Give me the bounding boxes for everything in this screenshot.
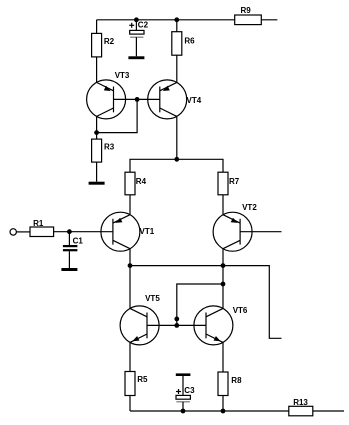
wire VT1 collector column [129, 249, 131, 309]
capacitor C3 [176, 376, 195, 411]
svg-text:R9: R9 [241, 6, 252, 15]
svg-text:R6: R6 [184, 36, 195, 45]
wire R6 to VT4 [176, 55, 178, 82]
node C3 bottom junction [181, 409, 186, 414]
wire top rail [97, 19, 235, 21]
svg-text:VT1: VT1 [140, 227, 155, 236]
wire R13 right [313, 410, 344, 412]
node VT2 rail B junction [221, 263, 226, 268]
resistor R7 [218, 172, 240, 195]
wire VT3 collector to R3 [96, 116, 98, 139]
resistor R2 [92, 33, 115, 57]
svg-text:C1: C1 [73, 236, 84, 245]
svg-text:R7: R7 [229, 177, 240, 186]
wire R6 top lead [176, 20, 178, 32]
capacitor C2 [129, 20, 148, 57]
wire VT2 collector column [222, 249, 224, 309]
resistor R13 [289, 398, 313, 416]
wire R1 to VT1 base [54, 231, 113, 233]
transistor VT4 [148, 80, 202, 119]
resistor R4 [125, 172, 147, 195]
wire R2 to VT3 [96, 57, 98, 83]
transistor VT6 [194, 306, 248, 345]
resistor R9 [235, 6, 262, 25]
svg-text:C3: C3 [184, 386, 195, 395]
node C1 tap [67, 229, 72, 234]
node base wire junction [174, 323, 179, 328]
wire VT5 emitter to R5 [129, 342, 131, 371]
svg-text:R4: R4 [136, 177, 147, 186]
svg-text:R1: R1 [33, 219, 44, 228]
resistor R8 [218, 372, 242, 396]
wire rail B [130, 266, 282, 339]
svg-text:C2: C2 [138, 20, 149, 29]
node bias tap [221, 282, 226, 287]
wire R5 to bottom rail [129, 396, 131, 412]
node rail A junction [174, 157, 179, 162]
wire input to R1 [16, 231, 30, 233]
node VT3 collector junction [94, 130, 99, 135]
wire R9 right [261, 19, 277, 21]
node R6 top junction [174, 17, 179, 22]
svg-text:VT3: VT3 [115, 71, 130, 80]
svg-text:VT2: VT2 [242, 203, 257, 212]
node R8 bottom junction [221, 409, 226, 414]
transistor VT5 [120, 294, 160, 345]
node base junction [135, 97, 140, 102]
wire R8 to bottom rail [222, 396, 224, 412]
node VT1 rail B junction [128, 263, 133, 268]
resistor R5 [125, 372, 148, 396]
svg-text:VT6: VT6 [233, 306, 248, 315]
wire VT3 base to VT4 base [114, 98, 160, 100]
svg-text:R2: R2 [104, 37, 115, 46]
ground C1 [61, 268, 77, 271]
svg-text:R3: R3 [104, 142, 115, 151]
ground C3 inverted [176, 373, 191, 376]
wire VT4 collector [176, 116, 178, 159]
wire VT5 base to VT6 base [147, 324, 206, 326]
node input terminal [10, 229, 16, 235]
wire R2 top lead [96, 20, 98, 34]
transistor VT3 [87, 71, 130, 119]
svg-text:VT5: VT5 [145, 294, 160, 303]
ground C2 [128, 56, 144, 59]
resistor R6 [172, 32, 195, 56]
node extra dot [174, 317, 179, 322]
resistor R3 [92, 139, 115, 162]
capacitor C1 [63, 232, 83, 268]
resistor R1 [30, 219, 54, 237]
svg-text:R13: R13 [293, 398, 308, 407]
ground R3 [89, 182, 105, 185]
wire bottom rail [130, 410, 289, 412]
wire rail A [130, 159, 223, 172]
node C2 top junction [134, 17, 139, 22]
transistor VT2 [213, 203, 257, 251]
wire R4 to VT1 [129, 195, 131, 215]
wire bias to VT5 VT6 bases [177, 284, 223, 325]
svg-text:VT4: VT4 [187, 96, 202, 105]
wire R7 to VT2 [222, 195, 224, 215]
wire VT6 emitter to R8 [222, 342, 224, 372]
svg-text:R5: R5 [137, 375, 148, 384]
wire diode connection [97, 99, 138, 132]
transistor VT1 [101, 212, 155, 251]
wire R3 to ground [96, 162, 98, 182]
wire VT2 base output [240, 231, 281, 233]
svg-text:R8: R8 [231, 376, 242, 385]
